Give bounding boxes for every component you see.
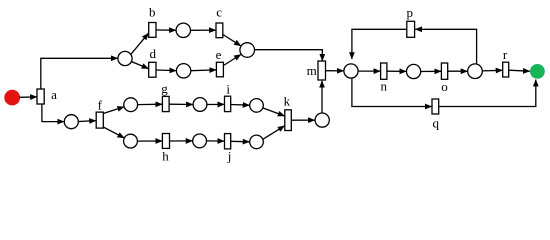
arc Pj to k bbox=[263, 126, 285, 140]
arc b to P2 bbox=[156, 29, 176, 31]
arc f to Ph1 bbox=[103, 127, 124, 138]
wire Pm down to q bbox=[352, 78, 432, 106]
arc Ph2 to j bbox=[207, 140, 225, 142]
svg-text:b: b bbox=[149, 4, 156, 19]
svg-text:n: n bbox=[381, 79, 388, 94]
transition e bbox=[216, 62, 223, 77]
transition k bbox=[285, 110, 292, 131]
place Pk bbox=[315, 113, 329, 127]
place Pj bbox=[250, 135, 264, 149]
svg-text:a: a bbox=[51, 87, 57, 102]
arc Pi to k bbox=[263, 108, 285, 116]
arc c to P4 bbox=[223, 35, 241, 46]
transition r bbox=[503, 62, 509, 77]
svg-text:m: m bbox=[307, 63, 317, 78]
place Ph2 bbox=[193, 134, 207, 148]
transition q bbox=[432, 99, 439, 114]
place Pg2 bbox=[193, 98, 207, 112]
wire Po up to p bbox=[415, 29, 476, 64]
svg-text:q: q bbox=[432, 115, 439, 130]
arc i to Pi bbox=[231, 104, 250, 107]
wire Pk up to m bottom bbox=[321, 81, 323, 113]
transition p bbox=[407, 21, 415, 37]
place Pm bbox=[344, 64, 358, 78]
svg-text:o: o bbox=[441, 79, 448, 94]
arc n to Pn bbox=[387, 70, 406, 72]
arc Pg1 to g bbox=[138, 103, 163, 105]
transition f bbox=[96, 112, 103, 128]
arc d to P3 bbox=[156, 69, 176, 72]
arc m to Pm bbox=[326, 70, 344, 72]
svg-text:e: e bbox=[216, 47, 222, 62]
place end (green) bbox=[530, 64, 545, 79]
arc P1 to b bbox=[131, 33, 149, 54]
place start (red token) bbox=[4, 90, 20, 106]
transition a bbox=[37, 89, 44, 104]
svg-text:r: r bbox=[503, 47, 508, 62]
place Pg1 bbox=[124, 98, 138, 112]
place P1 bbox=[118, 51, 132, 65]
place P2 bbox=[176, 23, 190, 37]
place Pi bbox=[250, 99, 264, 113]
svg-text:c: c bbox=[216, 4, 222, 19]
arc Ph1 to h bbox=[137, 140, 162, 142]
place P4 join bbox=[240, 43, 255, 58]
arc Pf to f bbox=[78, 120, 96, 123]
wire P4 to m top bbox=[255, 50, 323, 61]
svg-text:d: d bbox=[149, 46, 156, 61]
arc r to end bbox=[509, 70, 530, 71]
transition i bbox=[225, 96, 231, 111]
place Pn bbox=[407, 64, 421, 78]
place Po bbox=[468, 64, 483, 79]
wire p to Pm top bbox=[352, 29, 407, 59]
arc k to Pk bbox=[291, 119, 315, 121]
transition j bbox=[225, 134, 231, 149]
wire a down to place Pf bbox=[42, 104, 64, 122]
arc P3 to e bbox=[191, 69, 216, 72]
transition b bbox=[149, 23, 156, 38]
place Ph1 bbox=[124, 134, 138, 148]
arc g to Pg2 bbox=[169, 103, 193, 105]
arc Pg2 to i bbox=[207, 103, 224, 105]
svg-text:f: f bbox=[98, 98, 103, 113]
svg-text:i: i bbox=[226, 82, 230, 97]
wire a up to place P1 bbox=[41, 58, 118, 89]
wire q to end bottom bbox=[439, 80, 536, 107]
svg-text:g: g bbox=[161, 81, 168, 96]
arc Pm to n bbox=[358, 70, 380, 72]
arc f to Pg1 bbox=[103, 107, 124, 114]
svg-text:p: p bbox=[406, 5, 413, 20]
svg-text:k: k bbox=[284, 94, 291, 109]
transition g bbox=[162, 96, 169, 111]
place P3 bbox=[176, 64, 190, 78]
transition o bbox=[441, 63, 447, 79]
place Pf before f bbox=[64, 115, 78, 129]
transition h bbox=[162, 134, 169, 149]
arc h to Ph2 bbox=[170, 140, 193, 142]
arc o to Po bbox=[448, 70, 468, 72]
arc P1 to d bbox=[132, 62, 149, 69]
transition c bbox=[216, 23, 223, 38]
svg-text:h: h bbox=[162, 149, 169, 164]
arc Pn to o bbox=[421, 70, 442, 72]
arc P2 to c bbox=[191, 29, 216, 31]
transition m bbox=[318, 61, 326, 80]
arc Po to r bbox=[482, 69, 502, 72]
arc start to a bbox=[20, 96, 37, 98]
transition n bbox=[381, 63, 387, 79]
transition d bbox=[149, 62, 156, 77]
arc j to Pj bbox=[231, 140, 250, 143]
arc e to P4 bbox=[224, 55, 241, 66]
svg-text:j: j bbox=[227, 149, 232, 164]
